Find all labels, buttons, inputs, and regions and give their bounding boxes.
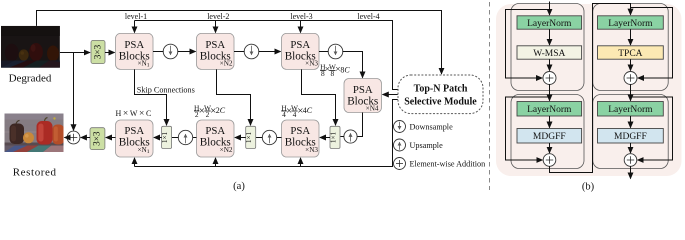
svg-text:4: 4 xyxy=(293,110,297,119)
container MDGFF left block xyxy=(511,95,584,169)
restored output image xyxy=(5,114,65,153)
svg-text:PSA: PSA xyxy=(353,84,373,96)
svg-text:Downsample: Downsample xyxy=(410,123,454,132)
addition node xyxy=(67,131,80,144)
conv 3x3 encoder xyxy=(91,40,105,63)
PSA block N2 encoder xyxy=(197,33,235,69)
PSA block N2 decoder xyxy=(197,120,235,157)
downsample 2 xyxy=(244,44,259,59)
LayerNorm left 2 xyxy=(517,102,582,117)
panel b background xyxy=(496,4,682,176)
svg-text:×N2: ×N2 xyxy=(220,146,233,154)
upsample 2 xyxy=(262,130,276,144)
svg-text:level-4: level-4 xyxy=(357,12,379,21)
svg-text:PSA: PSA xyxy=(290,125,310,137)
wire LN1 to W-MSA xyxy=(549,29,551,45)
level wire from module to encoder levels xyxy=(135,21,398,90)
conv 3x3 decoder xyxy=(90,128,105,150)
MDGFF left box xyxy=(517,129,582,144)
svg-text:8C: 8C xyxy=(340,66,350,75)
wire addition1 to LN2 xyxy=(549,84,551,101)
svg-text:Selective Module: Selective Module xyxy=(404,96,477,107)
svg-text:Element-wise Addition: Element-wise Addition xyxy=(410,160,486,169)
legend upsample xyxy=(394,139,444,151)
PSA block N4 bottleneck xyxy=(344,79,382,113)
wire residual bypass to addition xyxy=(73,53,75,131)
decoder drop 3 xyxy=(300,158,302,167)
Top-N Patch Selective Module xyxy=(398,75,483,114)
svg-text:1×1: 1×1 xyxy=(330,131,338,143)
svg-text:PSA: PSA xyxy=(205,39,225,51)
wire bypass TPCA xyxy=(631,8,673,79)
wire MDGFF right to addition 2 xyxy=(630,143,632,153)
wire 1x1 no1 to PSA N1 decoder xyxy=(154,137,162,139)
upsample 4 xyxy=(344,130,357,143)
svg-text:1×1: 1×1 xyxy=(161,131,169,143)
svg-text:Degraded: Degraded xyxy=(9,73,52,85)
svg-text:Skip Connections: Skip Connections xyxy=(137,85,195,94)
wire LN2 to MDGFF xyxy=(549,116,551,128)
svg-text:H × W × C: H × W × C xyxy=(115,109,151,119)
wire conv 3x3 to addition xyxy=(81,137,90,139)
container W-MSA block xyxy=(511,4,584,91)
wire PSA N2 to upsample 1 xyxy=(193,137,197,139)
svg-text:MDGFF: MDGFF xyxy=(533,132,566,142)
svg-text:(b): (b) xyxy=(582,182,595,193)
container MDGFF right block xyxy=(593,95,668,169)
wire W-MSA to addition 1 xyxy=(549,59,551,70)
svg-text:PSA: PSA xyxy=(290,39,310,51)
downsample 3 xyxy=(328,44,343,59)
svg-text:Upsample: Upsample xyxy=(410,141,444,150)
svg-text:TPCA: TPCA xyxy=(618,49,642,59)
wire addition to LN right 2 xyxy=(630,84,632,101)
wire left column to right column xyxy=(550,4,631,173)
svg-text:W-MSA: W-MSA xyxy=(533,49,565,59)
wire upsample 2 to 1x1 no2 xyxy=(256,137,263,139)
wire bypass W-MSA xyxy=(506,10,550,79)
downsample 1 xyxy=(163,44,178,59)
svg-text:×N3: ×N3 xyxy=(305,60,318,68)
wire addition to restored xyxy=(64,137,67,139)
svg-text:Top-N Patch: Top-N Patch xyxy=(414,83,468,94)
svg-text:level-3: level-3 xyxy=(290,12,312,21)
decoder drop 1 xyxy=(134,158,136,167)
LayerNorm right 1 xyxy=(598,16,664,29)
svg-text:Restored: Restored xyxy=(13,166,57,178)
wire PSA N1 to conv 3x3 decoder xyxy=(106,137,116,139)
decoder drop 2 xyxy=(215,158,217,167)
svg-text:PSA: PSA xyxy=(124,39,144,51)
PSA block N3 decoder xyxy=(282,120,320,157)
wire output right column xyxy=(630,166,632,178)
svg-text:3×3: 3×3 xyxy=(93,44,103,59)
skip connection 1 xyxy=(135,69,167,125)
LayerNorm left 1 xyxy=(517,16,582,29)
addition right 1 xyxy=(624,72,637,85)
svg-text:LayerNorm: LayerNorm xyxy=(527,19,572,29)
svg-text:8: 8 xyxy=(331,69,335,78)
wire PSA N3 to upsample 2 xyxy=(277,137,282,139)
svg-text:4C: 4C xyxy=(303,106,313,115)
wire input left column xyxy=(549,2,551,16)
legend element-wise addition xyxy=(394,158,486,170)
wire input top to Top-N module xyxy=(37,11,442,75)
svg-text:MDGFF: MDGFF xyxy=(614,132,647,142)
svg-text:1×1: 1×1 xyxy=(245,131,253,143)
level-3 drop xyxy=(300,21,302,33)
wire bypass MDGFF left xyxy=(506,97,550,160)
label H/4 x W/4 x 4C xyxy=(281,103,313,119)
addition left 2 xyxy=(543,154,556,167)
PSA4 output to upsample xyxy=(357,113,362,137)
label H/2 x W/2 x 2C xyxy=(194,103,226,119)
svg-text:2C: 2C xyxy=(216,106,226,115)
level-2 drop xyxy=(215,21,217,33)
LayerNorm right 2 xyxy=(598,102,664,117)
addition left 1 xyxy=(543,72,556,85)
wire LN2 to MDGFF right xyxy=(630,116,632,128)
svg-text:LayerNorm: LayerNorm xyxy=(527,105,572,115)
TPCA box xyxy=(598,46,664,59)
MDGFF right box xyxy=(598,129,664,144)
svg-text:2: 2 xyxy=(206,110,210,119)
wire upsample to conv 1x1 no3 xyxy=(340,136,344,138)
svg-text:LayerNorm: LayerNorm xyxy=(608,105,653,115)
addition right 2 xyxy=(624,154,637,167)
level-1 drop xyxy=(134,21,136,33)
wire PSA3 to downsample 3 xyxy=(319,51,329,53)
conv 1x1 no3 xyxy=(330,126,341,148)
separator dashed line xyxy=(489,2,491,190)
wire degraded to 3x3 conv xyxy=(60,52,90,54)
svg-text:3×3: 3×3 xyxy=(92,131,102,146)
wire downsample 3 to PSA4 xyxy=(343,52,363,78)
upsample 1 xyxy=(178,130,192,144)
svg-text:(a): (a) xyxy=(233,181,245,192)
skip connection 2 xyxy=(217,69,251,125)
wire PSA2 to downsample 2 xyxy=(234,51,245,53)
svg-text:level-1: level-1 xyxy=(125,12,147,21)
conv 1x1 no2 xyxy=(245,126,256,148)
wire TPCA to addition xyxy=(630,59,632,70)
wire 3x3 to PSA1 xyxy=(105,52,115,54)
svg-text:level-2: level-2 xyxy=(207,12,229,21)
svg-text:PSA: PSA xyxy=(124,125,144,137)
svg-text:×N4: ×N4 xyxy=(366,105,379,113)
label H/8 x W/8 x 8C xyxy=(320,63,350,78)
wire module to decoder levels xyxy=(135,100,398,167)
svg-text:LayerNorm: LayerNorm xyxy=(608,19,653,29)
container TPCA block xyxy=(593,4,668,91)
wire bypass MDGFF right xyxy=(631,97,673,160)
PSA block N1 decoder xyxy=(116,120,154,157)
PSA block N3 encoder xyxy=(282,33,320,69)
wire PSA1 to downsample xyxy=(153,51,164,53)
skip connection 3 xyxy=(302,69,336,125)
wire 1x1 no2 to PSA N2 decoder xyxy=(235,137,246,139)
wire upsample 1 to 1x1 no1 xyxy=(172,137,179,139)
W-MSA box xyxy=(517,46,582,59)
wire 1x1 no3 to PSA N3 decoder xyxy=(320,137,330,139)
conv 1x1 no1 xyxy=(161,126,172,148)
svg-text:×N2: ×N2 xyxy=(220,60,233,68)
wire module to PSA4 xyxy=(383,94,398,96)
legend downsample xyxy=(394,121,454,133)
wire downsample to PSA2 xyxy=(178,51,196,53)
degraded input image xyxy=(1,26,60,68)
wire MDGFF to addition 2 xyxy=(549,143,551,153)
svg-text:×N3: ×N3 xyxy=(305,146,318,154)
wire LN to TPCA xyxy=(630,29,632,45)
svg-text:PSA: PSA xyxy=(205,125,225,137)
PSA block N1 encoder xyxy=(116,33,154,69)
wire downsample 2 to PSA3 xyxy=(259,51,281,53)
